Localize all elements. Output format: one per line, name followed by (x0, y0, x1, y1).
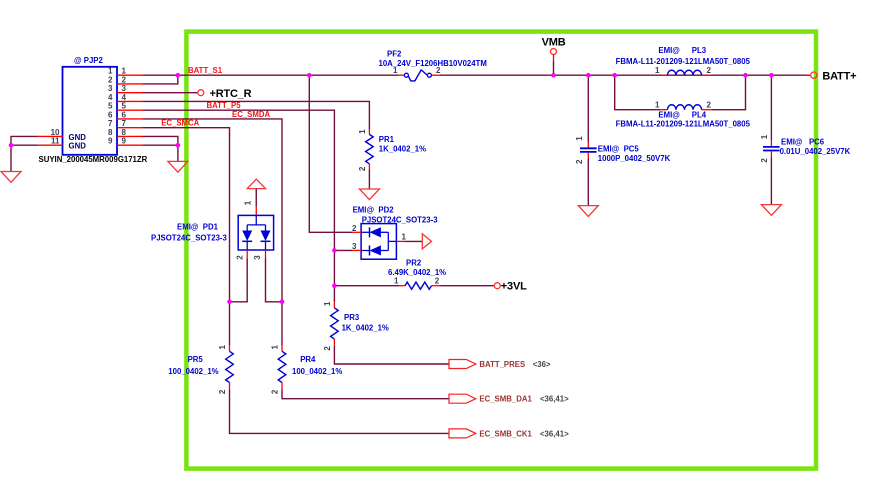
pin 4 stub (117, 100, 143, 102)
junction VMB (551, 73, 556, 78)
ground (PC6) (761, 205, 781, 216)
svg-text:7: 7 (122, 119, 127, 128)
svg-text:+3VL: +3VL (501, 281, 527, 293)
svg-text:<36>: <36> (533, 360, 551, 369)
svg-text:4: 4 (108, 93, 113, 102)
svg-text:5: 5 (122, 102, 127, 111)
svg-text:1: 1 (655, 66, 660, 75)
connector PJP2 (37, 56, 148, 164)
wire EC_SMDA vertical (143, 119, 282, 302)
svg-text:2: 2 (122, 76, 127, 85)
wire PD1 pin2 (230, 250, 248, 302)
svg-text:2: 2 (436, 66, 441, 75)
resistor PR4 (270, 302, 342, 394)
svg-text:3: 3 (122, 84, 127, 93)
svg-text:EC_SMDA: EC_SMDA (232, 110, 270, 119)
fuse PF2 (379, 49, 487, 81)
svg-text:1: 1 (393, 66, 398, 75)
svg-text:2: 2 (352, 224, 357, 233)
node BATT+ (806, 70, 856, 82)
pin3 stub PD2 (352, 249, 361, 251)
svg-text:@ PJP2: @ PJP2 (74, 56, 104, 65)
junction EC_SMCA / PR5 / PD1 (227, 300, 232, 305)
svg-text:EMI@: EMI@ (658, 111, 680, 120)
node +RTC_R (143, 88, 252, 100)
wire BATT_P5 to PD2 pin3 (334, 249, 352, 251)
pin 5 stub (117, 109, 143, 111)
svg-text:1: 1 (218, 345, 227, 350)
svg-text:EMI@ PD2: EMI@ PD2 (353, 205, 395, 214)
pin 3 stub (117, 92, 143, 94)
svg-text:EMI@: EMI@ (658, 46, 680, 55)
svg-text:<36,41>: <36,41> (540, 395, 569, 404)
diode pair PD2 (352, 205, 438, 259)
svg-text:0.01U_0402_25V7K: 0.01U_0402_25V7K (780, 147, 851, 156)
svg-text:10: 10 (51, 128, 60, 137)
pin 1 stub (117, 74, 143, 76)
svg-text:1: 1 (108, 67, 113, 76)
svg-text:2: 2 (707, 101, 712, 110)
junction EC_SMDA / PR4 / PD1 (280, 300, 285, 305)
svg-text:1: 1 (394, 276, 399, 285)
svg-text:6: 6 (108, 111, 113, 120)
svg-text:8: 8 (122, 128, 127, 137)
svg-text:2: 2 (575, 159, 584, 164)
wire pin4 to PR1 (143, 101, 369, 129)
svg-text:PL4: PL4 (692, 111, 707, 120)
svg-text:<36,41>: <36,41> (540, 429, 569, 438)
wire PR2 to +3VL (441, 285, 495, 287)
svg-text:PF2: PF2 (387, 49, 402, 58)
wire pin10 to ground (11, 136, 37, 171)
power node +3VL (494, 281, 527, 293)
svg-text:9: 9 (108, 137, 113, 146)
wire PR3 to BATT_PRES (334, 346, 449, 364)
svg-text:BATT+: BATT+ (822, 70, 856, 82)
svg-text:11: 11 (51, 137, 60, 146)
svg-text:2: 2 (108, 76, 113, 85)
svg-text:EMI@ PD1: EMI@ PD1 (177, 223, 219, 232)
wire pin9 (143, 144, 178, 146)
svg-text:2: 2 (218, 389, 227, 394)
off-page arrow EC_SMB_DA1 (449, 394, 476, 403)
capacitor PC6 (760, 75, 851, 204)
off-page arrow BATT_PRES (449, 360, 476, 369)
svg-text:GND: GND (69, 142, 87, 151)
junction PL4 left (612, 73, 617, 78)
svg-text:1: 1 (270, 345, 279, 350)
junction PC5 (586, 73, 591, 78)
svg-text:VMB: VMB (542, 36, 566, 48)
wire pin2 jog to BATT_S1 (143, 75, 178, 84)
power arrow (PD1 pin1) (247, 179, 265, 188)
junction BATT_P5 / PR2 / PR3 (332, 283, 337, 288)
svg-text:PL3: PL3 (692, 46, 707, 55)
svg-text:3: 3 (253, 255, 262, 260)
svg-text:SUYIN_200045MR009G171ZR: SUYIN_200045MR009G171ZR (39, 155, 148, 164)
svg-text:3: 3 (108, 84, 113, 93)
diode pair PD1 (151, 215, 274, 250)
wire PR4 to EC_SMB_DA1 (282, 389, 449, 398)
junction BATT_P5 / PD2 pin3 (332, 248, 337, 253)
svg-text:1: 1 (122, 67, 127, 76)
svg-text:2: 2 (760, 158, 769, 163)
svg-text:EC_SMB_CK1: EC_SMB_CK1 (479, 429, 532, 438)
pin 2 stub (117, 83, 143, 85)
wire pin11 (11, 144, 37, 146)
svg-text:1: 1 (402, 233, 407, 242)
ground (connector left) (1, 172, 21, 183)
svg-text:6.49K_0402_1%: 6.49K_0402_1% (388, 268, 446, 277)
ground (connector right) (168, 161, 188, 172)
svg-text:EC_SMB_DA1: EC_SMB_DA1 (479, 395, 532, 404)
wire PD1 pin1 (244, 189, 257, 216)
border frame (page boundary) (186, 32, 816, 469)
ground (PC5) (578, 206, 598, 217)
svg-text:PJSOT24C_SOT23-3: PJSOT24C_SOT23-3 (151, 234, 228, 243)
svg-text:2: 2 (707, 66, 712, 75)
junction pins 1/2 (176, 73, 181, 78)
wire PL4 branch left (615, 75, 661, 110)
junction PL4 right (743, 73, 748, 78)
svg-text:1: 1 (358, 129, 367, 134)
svg-text:1000P_0402_50V7K: 1000P_0402_50V7K (598, 154, 671, 163)
svg-text:BATT_S1: BATT_S1 (188, 66, 223, 75)
svg-text:9: 9 (122, 137, 127, 146)
wire EC_SMCA vertical (143, 128, 230, 302)
svg-text:1: 1 (760, 134, 769, 139)
wire pin8 to ground (143, 136, 178, 161)
power node VMB (542, 36, 566, 75)
power arrow (PD2 pin1) (422, 234, 431, 249)
svg-text:BATT_P5: BATT_P5 (207, 101, 242, 110)
wire PL4 branch right (711, 75, 745, 110)
resistor PR5 (168, 302, 233, 394)
wire PD1 pin3 (253, 250, 282, 302)
inductor PL3 (616, 46, 751, 75)
pin2 stub PD2 (352, 231, 361, 233)
wire BATT_P5 vertical (143, 110, 334, 286)
wire PD2 pin1 to arrow (396, 240, 422, 242)
off-page arrow EC_SMB_CK1 (449, 429, 476, 438)
inductor PL4 (616, 101, 751, 129)
resistor PR3 (323, 286, 389, 351)
svg-text:2: 2 (435, 276, 440, 285)
pin 11 stub (37, 144, 63, 146)
svg-text:2: 2 (323, 346, 332, 351)
svg-text:6: 6 (122, 111, 127, 120)
svg-text:EC_SMCA: EC_SMCA (161, 119, 199, 128)
svg-text:1: 1 (575, 136, 584, 141)
svg-text:PR3: PR3 (344, 313, 360, 322)
svg-text:GND: GND (69, 133, 87, 142)
resistor PR2 (388, 259, 446, 290)
resistor PR1 (358, 129, 426, 189)
pin 8 stub (117, 135, 143, 137)
svg-text:2: 2 (270, 389, 279, 394)
junction pins 10/11 (9, 143, 14, 148)
svg-text:PJSOT24C_SOT23-3: PJSOT24C_SOT23-3 (362, 216, 439, 225)
svg-text:PR2: PR2 (406, 259, 422, 268)
svg-text:FBMA-L11-201209-121LMA50T_0805: FBMA-L11-201209-121LMA50T_0805 (616, 120, 751, 129)
svg-text:EMI@ PC5: EMI@ PC5 (598, 144, 640, 153)
svg-text:2: 2 (236, 255, 245, 260)
pin 6 stub (117, 118, 143, 120)
svg-text:PR4: PR4 (300, 355, 316, 364)
svg-text:8: 8 (108, 128, 113, 137)
svg-text:1: 1 (244, 200, 253, 205)
svg-text:PR5: PR5 (188, 355, 204, 364)
wire BATT_S1 drop to PD2 pin2 (309, 75, 352, 232)
pin 7 stub (117, 127, 143, 129)
svg-text:5: 5 (108, 102, 113, 111)
junction PC6 (769, 73, 774, 78)
svg-text:1: 1 (323, 301, 332, 306)
wire PR2 left (334, 285, 399, 287)
pin 9 stub (117, 144, 143, 146)
svg-text:EMI@ PC6: EMI@ PC6 (781, 137, 825, 146)
wire BATT_S1 rail left of fuse (143, 74, 398, 76)
junction BATT_S1 drop (307, 73, 312, 78)
svg-text:1K_0402_1%: 1K_0402_1% (379, 145, 426, 154)
svg-text:FBMA-L11-201209-121LMA50T_0805: FBMA-L11-201209-121LMA50T_0805 (616, 57, 751, 66)
wire PR5 to EC_SMB_CK1 (230, 389, 450, 433)
pin 10 stub (37, 135, 63, 137)
svg-text:1: 1 (655, 101, 660, 110)
svg-text:100_0402_1%: 100_0402_1% (292, 367, 342, 376)
svg-text:4: 4 (122, 93, 127, 102)
svg-text:100_0402_1%: 100_0402_1% (168, 367, 218, 376)
svg-text:2: 2 (358, 166, 367, 171)
capacitor PC5 (575, 75, 671, 205)
wire BATT_S1 rail right of fuse (440, 74, 811, 76)
svg-text:7: 7 (108, 119, 113, 128)
junction pins 8/9 (176, 143, 181, 148)
svg-text:1K_0402_1%: 1K_0402_1% (342, 324, 389, 333)
ground (PR1) (359, 189, 379, 200)
svg-text:+RTC_R: +RTC_R (210, 88, 252, 100)
svg-text:PR1: PR1 (379, 135, 395, 144)
svg-text:BATT_PRES: BATT_PRES (479, 360, 525, 369)
